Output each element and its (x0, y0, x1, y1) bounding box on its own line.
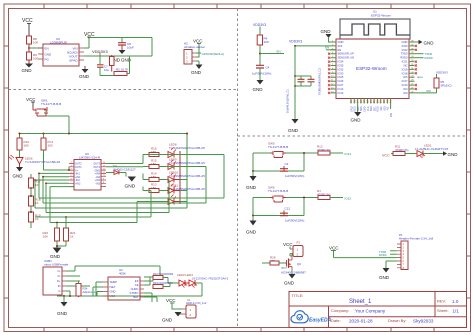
svg-text:ESP32-Wroom: ESP32-Wroom (356, 66, 387, 71)
svg-text:GND: GND (125, 184, 136, 190)
svg-text:-IN3: -IN3 (95, 183, 100, 186)
ground (284, 270, 296, 286)
resistor R15 (149, 159, 168, 169)
resistor R18 (29, 196, 41, 212)
wire net RXD0 (379, 253, 397, 257)
ground (246, 171, 257, 190)
node junction (303, 152, 305, 154)
capacitor C4 (252, 65, 271, 80)
switch SW6 (268, 186, 288, 203)
svg-text:RXD0: RXD0 (400, 56, 408, 60)
ground flag (pin1 top left) (321, 29, 332, 42)
svg-text:ISET: ISET (110, 285, 116, 289)
svg-text:EN: EN (277, 50, 281, 54)
svg-text:IO25: IO25 (338, 75, 344, 79)
resistor R4 pullup (253, 23, 269, 65)
wire EN net (29, 47, 43, 49)
wire rail down (295, 46, 311, 119)
resistor PC1 (41, 134, 69, 171)
power flag VCC (329, 246, 397, 258)
switch SW1 (33, 99, 61, 117)
power flag VCC (26, 97, 36, 107)
no-connect marks right pins (415, 45, 417, 90)
svg-text:GND: GND (351, 118, 362, 123)
wire G / bottom rail (57, 291, 202, 296)
svg-text:EasyEDA: EasyEDA (309, 317, 332, 323)
ground (191, 61, 203, 75)
LED LED4 (185, 277, 229, 297)
node junction (30, 133, 32, 135)
node junction (69, 295, 71, 297)
resistor R17 (29, 174, 41, 196)
title block (289, 292, 467, 328)
node junction (43, 133, 45, 135)
svg-text:IO0: IO0 (403, 91, 408, 95)
svg-text:GND: GND (162, 318, 173, 323)
ground flag (443, 151, 458, 157)
module U1 ESP32-Wroom (336, 10, 410, 99)
wire VCC rail (20, 133, 188, 135)
svg-text:Q2: Q2 (297, 262, 301, 266)
svg-text:TS-1177-B-B-B: TS-1177-B-B-B (268, 145, 288, 149)
svg-text:IO22: IO22 (402, 48, 408, 52)
svg-text:TJ-S1615CY6TGLC6B-A5: TJ-S1615CY6TGLC6B-A5 (25, 160, 61, 164)
svg-text:Drawn By:: Drawn By: (388, 318, 406, 323)
wire out4 (106, 166, 149, 168)
svg-text:IO23: IO23 (402, 44, 408, 48)
svg-text:19-217/GHC-YR1S2/3T-5A4-2: 19-217/GHC-YR1S2/3T-5A4-2 (192, 277, 229, 281)
svg-text:2020-01-28: 2020-01-28 (349, 319, 373, 324)
resistor R16 (149, 147, 168, 157)
ground (bottom pin) (351, 104, 362, 123)
LED LED11 (168, 184, 205, 194)
svg-text:IO18: IO18 (402, 71, 408, 75)
svg-text:GND: GND (191, 70, 202, 75)
svg-text:Company:: Company: (331, 308, 349, 313)
resistor R14 (143, 172, 168, 182)
svg-text:VDD3V3: VDD3V3 (253, 23, 266, 27)
svg-text:AO3400_D688997: AO3400_D688997 (281, 271, 306, 275)
LED LED1 (415, 144, 449, 159)
ground (125, 177, 137, 190)
svg-text:1K: 1K (35, 217, 39, 221)
ground flag (right pin1) (415, 40, 435, 46)
svg-text:IO5: IO5 (390, 112, 393, 117)
ground (79, 66, 90, 79)
svg-text:IO16: IO16 (402, 83, 408, 87)
resistor R7 (110, 55, 115, 72)
resistor R24 (76, 281, 96, 296)
resistor R22 (153, 272, 179, 283)
svg-text:GND: GND (45, 53, 53, 57)
svg-text:VCC: VCC (382, 154, 390, 158)
svg-text:10uF/6.3V(20%)_C1: 10uF/6.3V(20%)_C1 (286, 89, 290, 113)
svg-text:BAT: BAT (133, 295, 138, 299)
svg-text:vibration sensor: vibration sensor (184, 45, 205, 49)
wire (46, 111, 69, 134)
wire (28, 44, 30, 52)
node junction (28, 47, 30, 49)
svg-text:GND: GND (379, 275, 390, 280)
svg-text:GND: GND (253, 87, 264, 92)
svg-text:3V3: 3V3 (338, 44, 343, 48)
resistor RJ (317, 189, 351, 201)
svg-text:TXD0: TXD0 (401, 52, 408, 56)
resistor R8 (27, 36, 39, 45)
right pins (400, 40, 414, 95)
svg-text:VCC: VCC (166, 298, 176, 303)
svg-text:IO19: IO19 (402, 67, 408, 71)
svg-text:C12: C12 (285, 207, 291, 211)
svg-text:GND: GND (246, 185, 257, 190)
svg-text:VCC: VCC (283, 242, 293, 247)
wire VOUT / VDD3V3 net (84, 49, 152, 56)
charger U2 4056 (103, 268, 144, 300)
wire net TXD0 (379, 250, 397, 254)
svg-text:micro USBFemale: micro USBFemale (44, 263, 69, 267)
ground (162, 312, 182, 323)
svg-text:GND: GND (448, 152, 459, 157)
wire TEMP/ISET (93, 282, 103, 296)
connector H2 vibration sensor (184, 42, 205, 65)
svg-text:EP: EP (135, 279, 139, 283)
node junction (38, 173, 40, 175)
svg-text:EN: EN (45, 47, 49, 51)
svg-text:HDR-F-2.54_1x2: HDR-F-2.54_1x2 (186, 301, 207, 305)
svg-text:4056: 4056 (119, 272, 126, 276)
left pins (331, 40, 355, 95)
svg-text:IO21: IO21 (402, 60, 408, 64)
svg-text:GND: GND (110, 290, 116, 294)
svg-text:IO0: IO0 (426, 89, 431, 93)
svg-text:GND: GND (284, 281, 295, 286)
svg-text:10K: 10K (33, 57, 38, 61)
svg-text:1/1: 1/1 (453, 309, 460, 314)
wire net RXD0 (415, 56, 433, 60)
svg-text:IO14: IO14 (345, 152, 352, 156)
wire top rail (89, 38, 152, 57)
wire ID (66, 285, 90, 287)
power flag VCC (382, 154, 393, 158)
wire BAT/VCC (144, 293, 157, 302)
svg-text:1uF/50V(10%): 1uF/50V(10%) (252, 72, 271, 76)
svg-text:D+: D+ (57, 279, 61, 283)
svg-text:TS-1177-B-B-B: TS-1177-B-B-B (41, 102, 61, 106)
svg-text:10K: 10K (33, 41, 38, 45)
svg-text:EN: EN (325, 46, 329, 50)
svg-text:GND: GND (338, 40, 344, 44)
connector USB1 micro USB (43, 259, 69, 295)
svg-text:PG: PG (45, 58, 50, 62)
svg-text:10u: 10u (104, 68, 109, 72)
connector P1 header 1x8 (397, 233, 434, 270)
svg-text:1K: 1K (70, 235, 74, 239)
svg-text:1K: 1K (35, 183, 39, 187)
svg-text:GPIO33(SENLA): GPIO33(SENLA) (202, 52, 225, 56)
svg-text:VDD3V3: VDD3V3 (289, 40, 302, 44)
svg-text:IO4: IO4 (403, 87, 408, 91)
svg-text:IO35: IO35 (338, 64, 344, 68)
connector A1 battery header (182, 298, 207, 318)
LED LED9 (168, 158, 205, 170)
svg-text:GND: GND (57, 311, 68, 316)
ground (379, 261, 397, 280)
wire net GPIO33 (196, 52, 224, 56)
svg-text:TEMP: TEMP (110, 280, 118, 284)
svg-text:VCC: VCC (193, 39, 203, 44)
power flag VCC (84, 32, 95, 48)
svg-text:Date:: Date: (331, 318, 341, 323)
pin numbers left (331, 41, 334, 94)
wire out3 (106, 155, 149, 164)
resistor R5 (434, 71, 452, 89)
ground (13, 167, 24, 179)
svg-text:TAJB106M016RNJ_C2: TAJB106M016RNJ_C2 (318, 68, 322, 95)
svg-text:1uF/50V(10%): 1uF/50V(10%) (285, 174, 304, 178)
svg-text:1uF/50V(10%): 1uF/50V(10%) (285, 219, 304, 223)
svg-text:ID: ID (58, 284, 61, 288)
resistor R23 (153, 281, 179, 289)
svg-text:180: 180 (24, 144, 29, 148)
capacitor C3 (280, 162, 304, 178)
svg-text:VCC: VCC (110, 294, 116, 298)
resistor R20 (42, 228, 59, 241)
svg-text:GND: GND (288, 128, 299, 133)
wire charger right (144, 277, 153, 286)
svg-text:qout: qout (417, 75, 423, 79)
ground (110, 50, 132, 63)
power flag VCC + buzzer header P3 (283, 241, 303, 257)
capacitor C1 (286, 76, 305, 113)
svg-text:Your Company: Your Company (355, 309, 386, 314)
transistor Q2 AO3400 (281, 256, 306, 275)
wire (100, 56, 130, 76)
switch SW5 (268, 142, 288, 158)
svg-text:Adjustment: Adjustment (83, 290, 97, 294)
svg-text:IO14: IO14 (338, 87, 344, 91)
LED LED6 (9, 150, 61, 167)
svg-text:LM339G-S14-R: LM339G-S14-R (79, 156, 101, 160)
svg-text:GND: GND (402, 40, 408, 44)
svg-text:P3: P3 (297, 241, 301, 245)
svg-text:RXD0: RXD0 (379, 253, 387, 257)
power flag VCC (166, 298, 182, 309)
svg-text:Sheet_1: Sheet_1 (349, 299, 372, 305)
svg-text:IO27: IO27 (338, 83, 344, 87)
svg-text:GND: GND (321, 29, 332, 34)
svg-text:LED3 LED4: LED3 LED4 (177, 273, 193, 277)
svg-text:20K: 20K (43, 235, 48, 239)
svg-text:1K: 1K (35, 201, 39, 205)
svg-text:IO32: IO32 (338, 67, 344, 71)
svg-text:VCC: VCC (26, 97, 36, 102)
svg-text:IO34: IO34 (338, 60, 344, 64)
svg-text:17-21/BHC-XL2M2TY/3T: 17-21/BHC-XL2M2TY/3T (415, 147, 449, 151)
node junction (88, 37, 90, 39)
resistor R9 (27, 52, 39, 61)
pin numbers right (411, 41, 414, 94)
no-connect marks left pins (328, 53, 330, 94)
svg-text:V+: V+ (57, 269, 61, 273)
svg-text:Sheet:: Sheet: (437, 308, 449, 313)
wire V+ (66, 266, 160, 277)
svg-text:IO26: IO26 (338, 79, 344, 83)
svg-text:IO12: IO12 (345, 197, 352, 201)
LED LED3 (177, 273, 193, 288)
LED LED12 (159, 195, 180, 205)
capacitor C2 (308, 68, 322, 95)
svg-text:VDD3V3: VDD3V3 (436, 71, 448, 75)
svg-text:GND: GND (121, 58, 132, 63)
wire net TXD0 (415, 52, 433, 56)
svg-text:GND: GND (424, 41, 435, 46)
wire (57, 241, 66, 246)
wire EN (325, 46, 336, 50)
resistor R13 (143, 183, 168, 193)
svg-text:GND: GND (79, 74, 90, 79)
wire VCC drop to LED rail (180, 134, 187, 203)
svg-text:CHRG: CHRG (131, 287, 139, 291)
svg-text:R2 10.7K: R2 10.7K (116, 68, 129, 72)
node junction (303, 197, 305, 199)
ground (246, 216, 257, 235)
svg-text:GND: GND (246, 230, 257, 235)
svg-text:C3: C3 (285, 162, 289, 166)
EasyEDA logo (291, 311, 332, 324)
svg-text:IO17: IO17 (402, 79, 408, 83)
svg-text:IO5: IO5 (403, 75, 408, 79)
wire VIN (84, 47, 89, 49)
resistor R26 (262, 256, 287, 270)
svg-text:5R1(NC): 5R1(NC) (441, 84, 452, 88)
svg-text:GND: GND (13, 174, 24, 179)
LED LED10 (168, 171, 205, 183)
svg-text:STDBY: STDBY (130, 291, 139, 295)
ground (50, 246, 61, 259)
comparator U9 LM339 (69, 152, 106, 190)
svg-text:TS-1177-B-B-B: TS-1177-B-B-B (268, 189, 288, 193)
svg-text:10K: 10K (264, 40, 269, 44)
wire 3V3 rail (294, 45, 331, 47)
svg-text:NC: NC (387, 106, 390, 110)
svg-text:1.0: 1.0 (452, 299, 459, 304)
svg-text:RXD0: RXD0 (425, 56, 433, 60)
svg-text:C4: C4 (266, 66, 270, 70)
svg-text:TITLE:: TITLE: (292, 293, 304, 298)
op-amp U6 LD3985 (38, 37, 84, 66)
resistor R19 (29, 212, 41, 228)
capacitor C7 (97, 56, 109, 76)
svg-text:Header-Female-2.54_1x8: Header-Female-2.54_1x8 (399, 237, 434, 241)
wire LED cathode rail (179, 151, 181, 204)
svg-text:IO12: IO12 (338, 91, 344, 95)
power flag VCC (193, 39, 203, 58)
svg-text:CE: CE (135, 283, 139, 287)
capacitor C8 (118, 42, 134, 50)
svg-text:NC: NC (404, 64, 408, 68)
svg-text:10uF: 10uF (127, 46, 134, 50)
resistor R12 (317, 145, 351, 157)
svg-text:IN4002-C181127: IN4002-C181127 (113, 167, 136, 171)
ground (288, 119, 299, 133)
svg-text:GND: GND (22, 68, 33, 73)
LED LED8 (168, 143, 205, 158)
resistor R2 (114, 68, 129, 76)
resistor R21 (64, 228, 76, 241)
svg-text:REV:: REV: (437, 299, 446, 304)
svg-text:EN: EN (338, 48, 342, 52)
capacitor C12 (280, 207, 304, 223)
svg-text:SENSOR_VP: SENSOR_VP (338, 52, 355, 56)
wire loop nest below U9 (35, 155, 224, 229)
node junction + wire net EN (259, 50, 284, 55)
ground (253, 80, 264, 92)
node junction (68, 133, 70, 135)
svg-text:G: G (58, 289, 60, 293)
svg-text:Sky92033: Sky92033 (413, 319, 434, 324)
ground (22, 60, 34, 73)
ground (57, 296, 68, 316)
svg-text:150: 150 (48, 144, 53, 148)
power flag VCC (22, 18, 33, 36)
wire (253, 198, 318, 216)
node junction (56, 245, 58, 247)
svg-text:EPAD: EPAD (70, 59, 79, 63)
svg-text:+IN2: +IN2 (75, 183, 81, 186)
svg-text:IO33: IO33 (338, 71, 344, 75)
resistor R10 (17, 134, 29, 151)
svg-text:SENSOR_VN: SENSOR_VN (338, 56, 355, 60)
bottom pins (350, 99, 393, 118)
wire net IO0 (415, 88, 437, 93)
svg-text:ESP32-Wroom: ESP32-Wroom (371, 13, 391, 17)
svg-text:VCC: VCC (329, 246, 339, 251)
svg-text:D-: D- (58, 274, 61, 278)
wire D- D+ (66, 276, 80, 281)
wire (253, 153, 318, 171)
diode D4 (106, 164, 136, 177)
resistor R11 (393, 145, 417, 156)
